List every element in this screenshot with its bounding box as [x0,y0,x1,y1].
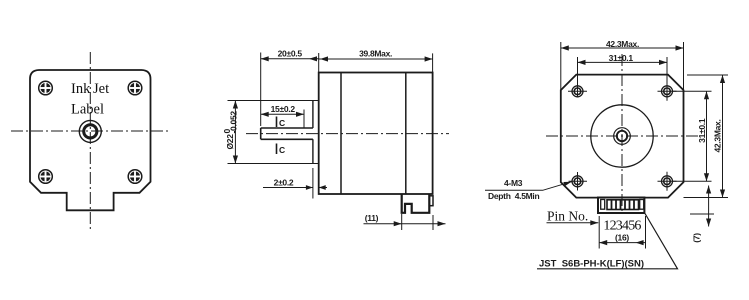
svg-text:(16): (16) [615,233,629,243]
svg-text:20±0.5: 20±0.5 [278,49,303,59]
svg-text:(7): (7) [692,233,702,243]
svg-text:C: C [279,118,285,128]
svg-text:Label: Label [71,102,104,118]
svg-text:(11): (11) [365,213,379,223]
svg-text:123456: 123456 [603,219,641,234]
svg-text:-0.052: -0.052 [228,111,238,134]
svg-text:Pin No.: Pin No. [547,209,588,224]
svg-text:Ink: Ink [71,81,91,97]
svg-text:Jet: Jet [93,81,109,97]
svg-text:4-M3: 4-M3 [504,178,523,188]
svg-text:39.8Max.: 39.8Max. [359,49,392,59]
svg-text:31±0.1: 31±0.1 [609,53,634,63]
svg-text:JST S6B-PH-K(LF)(SN): JST S6B-PH-K(LF)(SN) [539,259,644,270]
svg-text:42.3Max.: 42.3Max. [713,119,723,152]
svg-text:15±0.2: 15±0.2 [271,104,296,114]
svg-text:Ø22: Ø22 [225,134,235,150]
svg-text:31±0.1: 31±0.1 [697,118,707,143]
svg-text:2±0.2: 2±0.2 [274,178,294,188]
svg-text:Depth 4.5Min: Depth 4.5Min [488,191,539,201]
svg-text:C: C [279,145,285,155]
svg-text:42.3Max.: 42.3Max. [606,39,639,49]
